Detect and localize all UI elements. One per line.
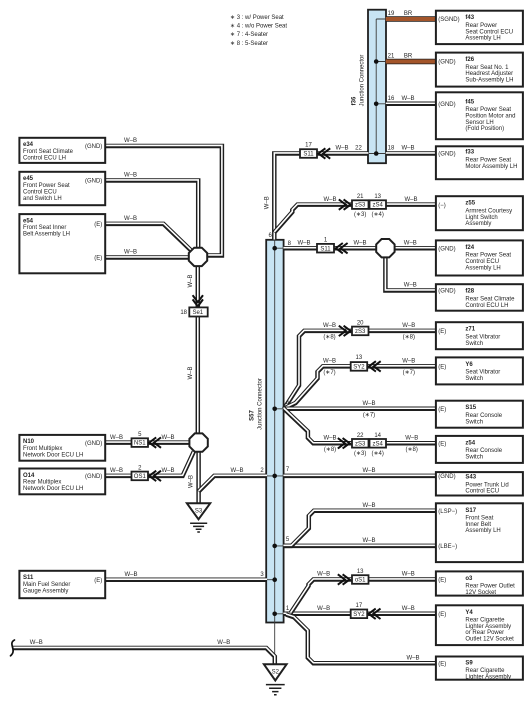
wire node C to f28 — [385, 256, 436, 290]
node dots S57 pins 8 4 2 5 3 1 — [272, 246, 277, 251]
wire node C to f24 — [394, 246, 436, 251]
svg-text:(E): (E) — [438, 365, 446, 371]
svg-text:5: 5 — [138, 432, 142, 438]
svg-text:(GND): (GND) — [438, 474, 455, 480]
svg-text:W–B: W–B — [405, 436, 418, 442]
svg-text:(GND): (GND) — [438, 152, 455, 158]
svg-text:Control ECU LH: Control ECU LH — [23, 155, 66, 161]
svg-text:Junction Connector: Junction Connector — [360, 55, 366, 107]
svg-text:Sensor LH: Sensor LH — [465, 120, 493, 126]
svg-text:S11: S11 — [23, 575, 34, 581]
svg-text:(E): (E) — [438, 662, 446, 668]
svg-text:(∗8): (∗8) — [324, 447, 336, 453]
svg-text:Assembly LH: Assembly LH — [465, 528, 500, 534]
svg-text:Rear Cigarette: Rear Cigarette — [465, 668, 505, 674]
component z54 Rear Console Switch — [436, 436, 523, 463]
svg-text:W–B: W–B — [188, 366, 194, 379]
wire S57 pin 1 to Y4 via SY2 — [283, 612, 436, 617]
svg-text:W–B: W–B — [217, 640, 230, 646]
svg-text:Lighter Assembly: Lighter Assembly — [465, 674, 511, 680]
svg-text:(GND): (GND) — [85, 144, 102, 150]
svg-text:W–B: W–B — [402, 572, 415, 578]
wire S57 pin 4 to z71 via zS3 — [284, 331, 436, 409]
svg-text:NS1: NS1 — [134, 441, 146, 447]
connector oS1 pin 13 — [339, 575, 369, 584]
node C octagon junction — [376, 239, 394, 257]
svg-text:3: 3 — [260, 572, 264, 578]
svg-text:(∗7): (∗7) — [323, 370, 335, 376]
svg-text:Front Seat Climate: Front Seat Climate — [23, 149, 74, 155]
svg-text:SY2: SY2 — [353, 365, 365, 371]
svg-text:(∗4): (∗4) — [372, 212, 384, 218]
svg-text:Control ECU: Control ECU — [23, 189, 57, 195]
wire S57 pin 6 branch to z55 via zS3 zS4 — [274, 205, 436, 233]
svg-text:Rear Console: Rear Console — [465, 413, 502, 419]
ground S2 — [264, 664, 287, 695]
svg-text:e45: e45 — [23, 176, 34, 182]
label S57 junction connector — [250, 378, 264, 430]
svg-text:(E): (E) — [438, 578, 446, 584]
wire e54 pin E lower to node A — [105, 255, 190, 260]
svg-text:Rear Console: Rear Console — [465, 448, 502, 454]
svg-text:(∗3): (∗3) — [354, 451, 366, 457]
svg-text:Switch: Switch — [465, 419, 483, 425]
svg-text:2: 2 — [260, 468, 264, 474]
wire S57 pin 6 up through S11 connector to f36 pin 22 — [274, 154, 368, 241]
label f36 junction connector — [352, 55, 366, 107]
wire long bottom W-B to ground S2 — [13, 648, 275, 664]
svg-text:S11: S11 — [320, 246, 331, 252]
svg-text:W–B: W–B — [323, 359, 336, 365]
svg-text:Switch: Switch — [465, 455, 483, 461]
svg-text:5: 5 — [286, 537, 290, 543]
svg-text:W–B: W–B — [401, 96, 414, 102]
svg-text:(LSP−): (LSP−) — [438, 509, 457, 515]
svg-text:Front Multiplex: Front Multiplex — [23, 446, 62, 452]
svg-text:Gauge Assembly: Gauge Assembly — [23, 588, 68, 594]
svg-text:Front Power Seat: Front Power Seat — [23, 183, 70, 189]
svg-text:(∗3): (∗3) — [354, 212, 366, 218]
component O14 Rear Multiplex Network Door ECU LH — [19, 469, 105, 495]
svg-text:(GND): (GND) — [438, 60, 455, 66]
connector zS3 zS4 pins 21 13 (z55 row) — [340, 200, 386, 209]
svg-text:W–B: W–B — [124, 250, 137, 256]
component e34 Front Seat Climate Control ECU LH — [19, 138, 105, 163]
svg-text:W–B: W–B — [335, 146, 348, 152]
wire S11 fuel sender to S57 pin 3 — [104, 577, 267, 582]
svg-text:o3: o3 — [465, 576, 473, 582]
svg-text:(GND): (GND) — [85, 474, 102, 480]
svg-text:(∗7): (∗7) — [363, 413, 375, 419]
svg-text:W–B: W–B — [188, 274, 194, 287]
svg-text:Main Fuel Sender: Main Fuel Sender — [23, 582, 70, 588]
svg-text:Control ECU: Control ECU — [465, 259, 499, 265]
svg-text:W–B: W–B — [317, 606, 330, 612]
component o3 Rear Power Outlet 12V Socket — [436, 571, 523, 596]
wire node A down through Se1 to node B — [196, 265, 201, 434]
svg-text:Rear Power Seat: Rear Power Seat — [465, 158, 511, 164]
svg-text:W–B: W–B — [124, 173, 137, 179]
svg-text:Rear Cigarette: Rear Cigarette — [465, 618, 505, 624]
node A octagon junction — [189, 248, 207, 266]
component f24 Rear Power Seat Control ECU Assembly LH — [436, 240, 523, 275]
svg-text:18: 18 — [180, 310, 187, 316]
svg-text:(GND): (GND) — [438, 289, 455, 295]
svg-text:(∗4): (∗4) — [372, 451, 384, 457]
svg-text:W–B: W–B — [124, 138, 137, 144]
wire pin 1 branch to S9 — [286, 615, 436, 664]
svg-text:Assembly LH: Assembly LH — [465, 265, 500, 271]
svg-text:∗ 8 : 5-Seater: ∗ 8 : 5-Seater — [230, 41, 268, 47]
svg-text:BR: BR — [404, 54, 413, 60]
component N10 Front Multiplex Network Door ECU LH — [19, 435, 105, 461]
connector S11 pin 1 — [317, 244, 347, 253]
svg-text:N10: N10 — [23, 439, 35, 445]
svg-text:21: 21 — [388, 54, 395, 60]
wire break symbol — [11, 640, 15, 656]
node B octagon junction — [189, 433, 207, 451]
svg-text:W–B: W–B — [362, 538, 375, 544]
svg-text:Lighter Assembly: Lighter Assembly — [465, 624, 511, 630]
junction connector S57 body — [266, 240, 283, 623]
svg-text:or Rear Power: or Rear Power — [465, 630, 504, 636]
svg-text:W–B: W–B — [406, 656, 419, 662]
svg-text:(E): (E) — [438, 329, 446, 335]
svg-text:2: 2 — [138, 465, 142, 471]
svg-text:S2: S2 — [272, 669, 280, 675]
wire f36 pin 16 to f45 — [386, 102, 436, 107]
svg-text:(E): (E) — [94, 222, 102, 228]
svg-text:W–B: W–B — [323, 197, 336, 203]
svg-text:Switch: Switch — [465, 376, 483, 382]
svg-text:(∗8): (∗8) — [403, 335, 415, 341]
svg-text:Headrest Adjuster: Headrest Adjuster — [465, 71, 513, 77]
wire S57 pin 4 to z54 via zS3 zS4 — [284, 409, 436, 444]
svg-text:Network Door ECU LH: Network Door ECU LH — [23, 486, 83, 492]
svg-text:Control ECU LH: Control ECU LH — [465, 303, 508, 309]
component f33 Rear Power Seat Motor Assembly LH — [436, 146, 523, 179]
svg-text:W–B: W–B — [353, 240, 366, 246]
svg-text:W–B: W–B — [404, 240, 417, 246]
svg-text:f43: f43 — [465, 15, 474, 21]
svg-text:Sub-Assembly LH: Sub-Assembly LH — [465, 78, 513, 84]
svg-text:W–B: W–B — [362, 503, 375, 509]
wire node B down to ground S3 — [196, 451, 201, 504]
svg-text:Rear Seat Climate: Rear Seat Climate — [465, 297, 515, 303]
svg-text:Rear Multiplex: Rear Multiplex — [23, 480, 61, 486]
svg-text:W–B: W–B — [161, 435, 174, 441]
svg-text:z54: z54 — [465, 440, 475, 446]
connector zS3 pin 20 (z71 row) — [340, 326, 369, 335]
svg-text:Inner Belt: Inner Belt — [465, 522, 491, 528]
svg-text:zS4: zS4 — [373, 203, 384, 209]
svg-text:(Fold Position): (Fold Position) — [465, 126, 504, 132]
svg-text:S15: S15 — [465, 405, 476, 411]
svg-text:12V Socket: 12V Socket — [465, 590, 496, 596]
svg-text:Rear Power: Rear Power — [465, 23, 497, 29]
svg-text:Seat Control ECU: Seat Control ECU — [465, 29, 513, 35]
svg-text:(E): (E) — [94, 578, 102, 584]
svg-text:Rear Seat No. 1: Rear Seat No. 1 — [465, 65, 509, 71]
wire S57 pin 7 to S43 — [283, 474, 436, 479]
svg-text:S57: S57 — [250, 410, 256, 421]
svg-text:W–B: W–B — [110, 435, 123, 441]
svg-text:Front Seat Inner: Front Seat Inner — [23, 225, 66, 231]
component S15 Rear Console Switch — [436, 401, 523, 428]
svg-text:Rear Power Outlet: Rear Power Outlet — [465, 584, 515, 590]
svg-text:W–B: W–B — [161, 468, 174, 474]
connector OS1 pin 2 — [132, 471, 161, 480]
wire N10 through NS1 to node B — [105, 440, 190, 445]
svg-text:13: 13 — [374, 194, 381, 200]
svg-text:f26: f26 — [465, 57, 474, 63]
svg-text:(GND): (GND) — [85, 179, 102, 185]
svg-text:(E): (E) — [438, 407, 446, 413]
wire e45 to node A — [105, 181, 198, 250]
component S9 Rear Cigarette Lighter Assembly — [436, 657, 523, 681]
wire f36 pin 19 BR to f43 — [386, 16, 436, 21]
svg-text:Se1: Se1 — [192, 310, 203, 316]
svg-text:W–B: W–B — [362, 401, 375, 407]
svg-text:22: 22 — [355, 146, 362, 152]
svg-text:W–B: W–B — [230, 468, 243, 474]
svg-text:Seat Vibrator: Seat Vibrator — [465, 370, 500, 376]
svg-text:Position Motor and: Position Motor and — [465, 114, 515, 120]
svg-text:W–B: W–B — [402, 359, 415, 365]
svg-text:W–B: W–B — [402, 606, 415, 612]
wire e34 to node A — [105, 146, 222, 256]
svg-text:(∗8): (∗8) — [406, 447, 418, 453]
svg-text:W–B: W–B — [323, 323, 336, 329]
svg-text:W–B: W–B — [404, 197, 417, 203]
connector zS3 zS4 pins 22 14 (z54 row) — [339, 439, 386, 448]
svg-text:Switch: Switch — [465, 341, 483, 347]
svg-text:(E): (E) — [94, 256, 102, 262]
svg-text:W–B: W–B — [362, 468, 375, 474]
wire O14 through OS1 to node B — [105, 452, 194, 476]
svg-text:zS3: zS3 — [355, 329, 366, 335]
svg-text:Motor Assembly LH: Motor Assembly LH — [465, 164, 517, 170]
svg-text:(E): (E) — [438, 612, 446, 618]
svg-text:(∗7): (∗7) — [403, 370, 415, 376]
svg-text:SY2: SY2 — [353, 612, 365, 618]
svg-text:BR: BR — [404, 11, 413, 17]
svg-text:W–B: W–B — [401, 146, 414, 152]
note legend — [230, 15, 287, 47]
svg-text:W–B: W–B — [265, 196, 271, 209]
svg-text:1: 1 — [324, 237, 328, 243]
svg-text:Front Seat: Front Seat — [465, 516, 493, 522]
svg-text:z71: z71 — [465, 327, 475, 333]
svg-text:(∗8): (∗8) — [323, 335, 335, 341]
svg-text:W–B: W–B — [30, 640, 43, 646]
node dots f36 pins 21 16 22 — [374, 59, 379, 64]
svg-text:W–B: W–B — [323, 436, 336, 442]
svg-text:oS1: oS1 — [355, 578, 366, 584]
svg-text:13: 13 — [357, 569, 364, 575]
wire S57 pin 5 to S17 LBE — [283, 544, 436, 549]
connector NS1 pin 5 — [132, 438, 161, 447]
svg-text:Armrest Courtesy: Armrest Courtesy — [465, 209, 512, 215]
wire S57 pin 5 branch to S17 LSP — [284, 511, 436, 546]
svg-text:Control ECU: Control ECU — [465, 489, 499, 495]
svg-text:zS4: zS4 — [373, 441, 384, 447]
svg-text:f45: f45 — [465, 99, 474, 105]
svg-text:Y6: Y6 — [465, 362, 473, 368]
connector SY2 pin 17 (Y4 row) — [351, 609, 380, 618]
svg-text:W–B: W–B — [404, 283, 417, 289]
wire S57 bottom lead to ground S2 — [274, 623, 276, 665]
svg-text:zS3: zS3 — [355, 203, 366, 209]
wire S57 pin 4 to S15 — [283, 407, 436, 412]
svg-text:f24: f24 — [465, 245, 474, 251]
svg-text:17: 17 — [305, 142, 312, 148]
svg-text:W–B: W–B — [402, 323, 415, 329]
svg-text:Network Door ECU LH: Network Door ECU LH — [23, 452, 83, 458]
svg-text:Rear Power Seat: Rear Power Seat — [465, 253, 511, 259]
svg-text:S9: S9 — [465, 660, 473, 666]
svg-text:∗ 7 : 4-Seater: ∗ 7 : 4-Seater — [230, 32, 268, 38]
svg-text:W–B: W–B — [124, 572, 137, 578]
svg-text:f28: f28 — [465, 289, 474, 295]
wire branch to S57 pin 2 — [199, 476, 267, 492]
svg-text:Rear Power Seat: Rear Power Seat — [465, 107, 511, 113]
svg-text:18: 18 — [388, 146, 395, 152]
svg-text:14: 14 — [374, 433, 381, 439]
svg-text:Assembly LH: Assembly LH — [465, 36, 500, 42]
svg-text:Power Trunk Lid: Power Trunk Lid — [465, 482, 508, 488]
svg-text:21: 21 — [357, 194, 364, 200]
component f28 Rear Seat Climate Control ECU LH — [436, 284, 523, 311]
svg-text:e34: e34 — [23, 142, 34, 148]
svg-text:19: 19 — [388, 11, 395, 17]
svg-text:f33: f33 — [465, 150, 474, 156]
wire S57 pin 8 through S11 connector to node C — [283, 246, 377, 251]
component f45 Rear Power Seat Position Motor and Sensor LH — [436, 92, 523, 139]
svg-text:Light Switch: Light Switch — [465, 215, 497, 221]
svg-text:and Switch LH: and Switch LH — [23, 196, 62, 202]
svg-text:(E): (E) — [438, 442, 446, 448]
svg-text:(GND): (GND) — [85, 441, 102, 447]
svg-text:W–B: W–B — [317, 572, 330, 578]
svg-text:W–B: W–B — [110, 468, 123, 474]
svg-text:Belt Assembly LH: Belt Assembly LH — [23, 232, 70, 238]
svg-text:(GND): (GND) — [438, 246, 455, 252]
svg-text:7: 7 — [286, 467, 290, 473]
svg-text:Outlet 12V Socket: Outlet 12V Socket — [465, 637, 514, 643]
svg-text:S43: S43 — [465, 475, 476, 481]
wire e54 pin E upper to node A — [105, 224, 191, 251]
svg-text:Junction Connector: Junction Connector — [258, 378, 264, 430]
wire pin 1 branch to o3 via oS1 — [291, 580, 437, 614]
component S17 Front Seat Inner Belt Assembly LH — [436, 503, 523, 562]
svg-text:16: 16 — [388, 96, 395, 102]
connector SY2 pin 13 (Y6 row) — [351, 362, 380, 371]
svg-text:(GND): (GND) — [438, 102, 455, 108]
component f43 Rear Power Seat Control ECU Assembly LH — [436, 11, 523, 44]
component Y4 Rear Cigarette Lighter Assembly or Rear Power Outlet 12V Socket — [436, 605, 523, 645]
svg-text:e54: e54 — [23, 218, 34, 224]
svg-text:z55: z55 — [465, 201, 475, 207]
svg-text:S17: S17 — [465, 508, 476, 514]
svg-text:22: 22 — [357, 433, 364, 439]
svg-text:OS1: OS1 — [134, 474, 147, 480]
svg-text:Assembly: Assembly — [465, 221, 491, 227]
svg-text:13: 13 — [356, 355, 363, 361]
component S11 Main Fuel Sender Gauge Assembly — [19, 571, 105, 598]
component e54 Front Seat Inner Belt Assembly LH — [19, 214, 105, 273]
svg-text:(−): (−) — [438, 203, 446, 209]
component z55 Armrest Courtesy Light Switch Assembly — [436, 196, 523, 230]
component e45 Front Power Seat Control ECU and Switch LH — [19, 172, 105, 205]
connector Se1 pin 18 — [189, 296, 207, 317]
connector S11 pin 17 — [300, 149, 329, 158]
svg-text:O14: O14 — [23, 473, 35, 479]
svg-text:(LBE−): (LBE−) — [438, 544, 457, 550]
svg-text:6: 6 — [268, 233, 272, 239]
svg-text:W–B: W–B — [189, 475, 195, 488]
junction connector f36 body — [368, 10, 386, 164]
svg-text:17: 17 — [356, 603, 363, 609]
svg-text:W–B: W–B — [124, 216, 137, 222]
svg-text:W–B: W–B — [297, 240, 310, 246]
svg-text:(SGND): (SGND) — [438, 17, 459, 23]
component f26 Rear Seat No. 1 Headrest Adjuster Sub-Assembly LH — [436, 53, 523, 87]
svg-text:S3: S3 — [195, 508, 203, 514]
svg-text:Seat Vibrator: Seat Vibrator — [465, 335, 500, 341]
component z71 Seat Vibrator Switch — [436, 322, 523, 349]
svg-text:zS3: zS3 — [355, 441, 366, 447]
svg-text:∗ 3 : w/ Power Seat: ∗ 3 : w/ Power Seat — [230, 15, 284, 21]
wire f36 pin 18 to f33 — [386, 151, 436, 156]
wire f36 pin 21 BR to f26 — [386, 59, 436, 64]
ground S3 — [187, 503, 210, 532]
component S43 Power Trunk Lid Control ECU — [436, 472, 523, 495]
svg-text:∗ 4 : w/o Power Seat: ∗ 4 : w/o Power Seat — [230, 24, 287, 30]
svg-text:Y4: Y4 — [465, 610, 473, 616]
svg-text:f36: f36 — [352, 96, 358, 105]
wire S57 pin 4 to Y6 via SY2 — [284, 366, 437, 408]
svg-text:S11: S11 — [303, 152, 314, 158]
component Y6 Seat Vibrator Switch — [436, 357, 523, 384]
svg-text:20: 20 — [357, 320, 364, 326]
